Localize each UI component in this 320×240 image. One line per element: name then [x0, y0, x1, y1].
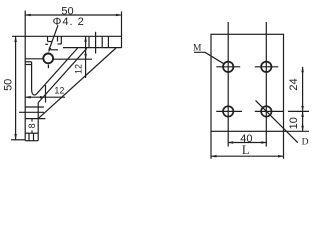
triangle cutout top edge, left part — [25, 58, 43, 60]
dim L: right extension line — [283, 131, 285, 159]
hole bottom-right cross line — [255, 110, 284, 112]
leader arrowhead — [48, 47, 51, 53]
gusset outer edge diagonal — [38, 48, 116, 119]
dim 50 left: dimension line — [15, 36, 17, 139]
svg-text:12: 12 — [54, 85, 64, 95]
top arm corner channel wall b — [57, 36, 59, 41]
left arm hole wall a — [25, 106, 44, 108]
dim 50 left: bottom arrow — [14, 134, 17, 140]
hole bottom-right circle — [261, 106, 271, 116]
top arm end step wall — [107, 36, 109, 47]
dim 12 horizontal: left arrow — [25, 96, 31, 99]
dim 12 vertical: bottom arrow — [84, 54, 87, 60]
svg-text:D: D — [302, 137, 309, 147]
dim 12 horizontal: right arrow — [40, 96, 46, 99]
triangle cutout top edge extension, right part — [53, 58, 92, 60]
hole bottom-left circle — [223, 106, 233, 116]
left arm corner lip line a — [25, 61, 31, 63]
dim 50 left: bottom extension line — [11, 139, 25, 141]
hole column centerline right — [265, 22, 267, 147]
dim 24: top arrow — [301, 67, 304, 73]
dim 12 vertical: top arrow — [84, 36, 87, 42]
plate outline rectangle — [211, 34, 284, 131]
dim 10: bottom arrow — [301, 126, 304, 132]
dim 12 horizontal: dimension line — [25, 96, 65, 98]
dim L: dimension line — [211, 155, 284, 157]
left arm hole centerline — [19, 111, 44, 113]
dim L: left arrow — [211, 155, 217, 158]
leader for label D — [256, 100, 298, 142]
left arm end step wall — [25, 132, 38, 134]
top arm hole wall b — [101, 36, 103, 47]
dim 24: bottom arrow — [301, 106, 304, 112]
top arm corner channel step b — [58, 43, 62, 45]
svg-text:M: M — [193, 44, 202, 54]
left arm inner edge — [37, 103, 39, 141]
dim 8: dimension line — [31, 119, 33, 134]
dim 8: top arrow — [31, 119, 34, 125]
top arm corner channel step a — [48, 41, 52, 43]
svg-text:Φ4. 2: Φ4. 2 — [53, 16, 85, 28]
left arm corner lip line b — [25, 64, 31, 66]
dim 10: bottom extension line — [284, 130, 310, 132]
corner boss bottom line — [51, 49, 59, 51]
left arm foot tick a — [28, 133, 30, 141]
top arm underside — [63, 47, 122, 49]
corner hole ext line down from circle (for 12 dim) — [45, 85, 47, 103]
hole top-right cross line — [255, 66, 278, 68]
dim 10: dimension line — [302, 111, 304, 131]
top arm hole wall a — [88, 36, 90, 47]
dim 50 top: dimension line — [25, 14, 121, 16]
corner hole centerline tick below circle — [47, 65, 49, 69]
hole top-left circle — [223, 62, 233, 72]
dim 10: top arrow — [301, 111, 304, 117]
bracket left edge (with top extension line) — [24, 11, 26, 141]
left arm foot tick b — [33, 133, 35, 141]
dim 40: dimension line — [228, 142, 267, 144]
dim 8: bottom arrow — [31, 128, 34, 134]
top arm hole centerline — [95, 32, 97, 54]
hole bottom-left cross line — [216, 110, 242, 112]
left arm hole wall b — [25, 118, 45, 120]
svg-text:10: 10 — [288, 117, 300, 129]
triangle cutout left edge with rounded corner into hypotenuse — [32, 48, 78, 95]
leader line for hole callout — [49, 25, 58, 50]
svg-text:8: 8 — [27, 123, 37, 128]
dim 24: dimension line — [302, 67, 304, 112]
hole top-right circle — [261, 62, 271, 72]
dim 50 top: right arrow — [116, 14, 122, 17]
text 8 (rotated, on white patch) — [27, 122, 37, 131]
dim L: right arrow — [278, 155, 284, 158]
bracket right end edge (with top extension line) — [121, 12, 123, 49]
top arm corner channel jog — [45, 43, 48, 45]
hole top-left cross line — [216, 66, 240, 68]
dim 40: left arrow — [228, 141, 234, 144]
dim 12 vertical: dimension line — [85, 36, 87, 78]
top arm corner channel wall a — [47, 36, 49, 41]
svg-text:12: 12 — [74, 64, 84, 74]
dim 50 left: top arrow — [14, 36, 17, 42]
leader for label M — [194, 52, 224, 64]
corner hole circle (phi 4.2) — [43, 54, 53, 64]
svg-text:50: 50 — [2, 79, 14, 91]
dim 24: extension line at bottom holes level — [288, 110, 309, 112]
dim 40: right arrow — [261, 141, 267, 144]
dim L: left extension line — [210, 131, 212, 159]
top arm corner channel wall c — [60, 36, 62, 44]
svg-text:L: L — [242, 143, 250, 157]
svg-text:24: 24 — [288, 78, 300, 90]
dim 50 top: left arrow — [25, 14, 31, 17]
hole column centerline left — [227, 22, 229, 147]
bracket bottom edge — [25, 140, 38, 142]
gusset inner rib diagonal — [38, 48, 87, 102]
bracket top edge (with left extension line) — [12, 35, 122, 37]
